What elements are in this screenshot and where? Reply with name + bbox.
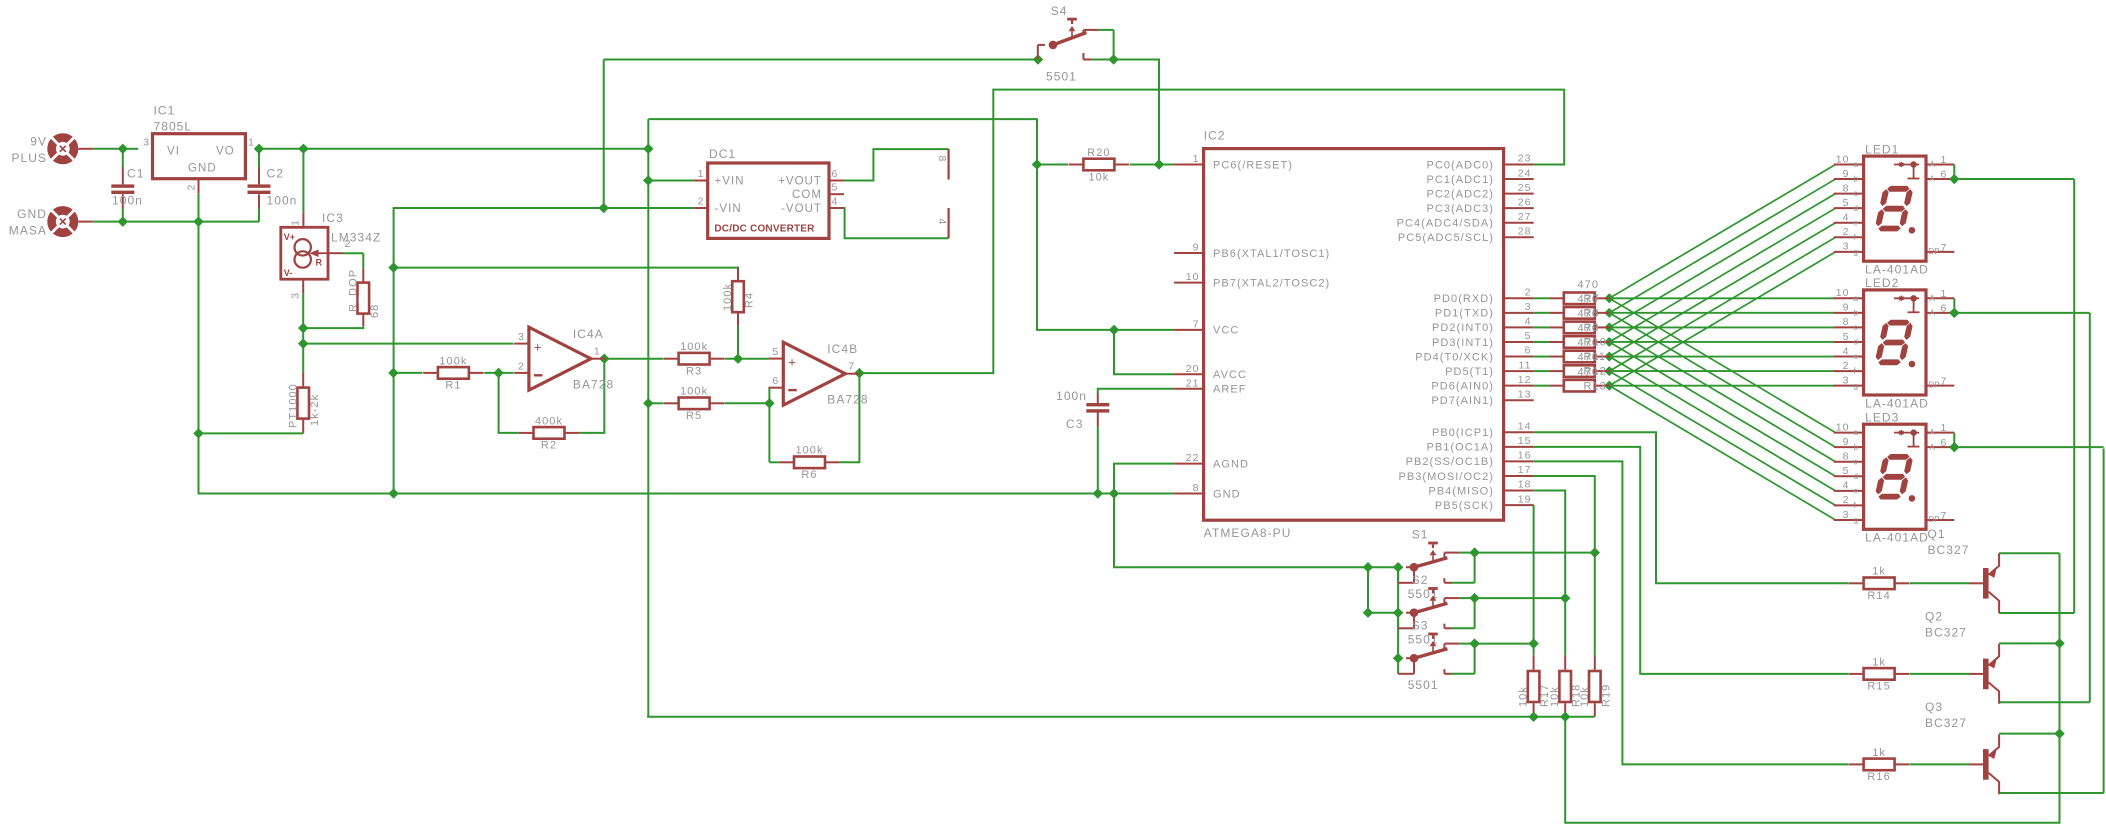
svg-text:LED2: LED2 [1865,276,1899,290]
svg-text:1: 1 [698,168,705,180]
svg-text:10k: 10k [1549,686,1561,707]
svg-text:6: 6 [1941,437,1948,449]
svg-text:2: 2 [345,238,352,250]
svg-text:e: e [1854,352,1859,361]
svg-text:PD7(AIN1): PD7(AIN1) [1431,395,1494,407]
svg-text:PD3(INT1): PD3(INT1) [1432,337,1494,349]
svg-text:21: 21 [1186,377,1200,389]
svg-text:PLUS: PLUS [11,151,47,165]
svg-text:R: R [316,258,323,268]
svg-text:BC327: BC327 [1928,543,1970,557]
svg-text:+VIN: +VIN [715,175,745,187]
svg-text:-VIN: -VIN [715,203,742,215]
svg-text:V-: V- [284,268,293,278]
svg-text:1: 1 [594,346,601,358]
svg-text:a: a [1854,428,1859,437]
svg-text:2: 2 [186,184,198,191]
svg-text:20: 20 [1186,363,1200,375]
svg-text:2: 2 [698,195,705,207]
svg-text:3: 3 [518,331,525,343]
svg-text:4: 4 [1843,212,1850,224]
svg-text:10: 10 [1836,153,1850,165]
svg-text:c: c [1854,457,1858,466]
svg-text:g: g [1854,381,1858,390]
svg-text:8: 8 [1843,451,1850,463]
svg-text:PC5(ADC5/SCL): PC5(ADC5/SCL) [1398,232,1494,244]
svg-text:e: e [1854,486,1859,495]
svg-text:1k: 1k [1872,656,1886,668]
svg-text:AVCC: AVCC [1213,369,1247,381]
svg-text:470: 470 [1578,308,1600,320]
svg-text:PB7(XTAL2/TOSC2): PB7(XTAL2/TOSC2) [1213,277,1330,289]
svg-text:100k: 100k [795,445,823,457]
svg-text:1: 1 [1941,288,1948,300]
svg-text:11: 11 [1519,359,1532,371]
svg-text:7: 7 [1941,510,1948,522]
svg-text:DC1: DC1 [709,147,736,161]
svg-text:PD0(RXD): PD0(RXD) [1434,293,1494,305]
svg-text:A: A [1930,443,1936,452]
svg-text:S3: S3 [1412,619,1429,633]
svg-text:VI: VI [167,145,180,157]
svg-text:10k: 10k [1088,171,1109,183]
svg-text:3: 3 [290,292,302,299]
svg-text:PB4(MISO): PB4(MISO) [1428,485,1494,497]
svg-text:IC1: IC1 [154,104,176,118]
svg-text:470: 470 [1578,279,1600,291]
svg-text:C3: C3 [1066,417,1083,431]
svg-text:PD6(AIN0): PD6(AIN0) [1431,380,1494,392]
svg-text:+VOUT: +VOUT [778,175,822,187]
svg-text:9: 9 [1193,242,1200,254]
svg-text:68: 68 [369,304,381,318]
svg-text:g: g [1854,247,1858,256]
svg-text:VCC: VCC [1213,325,1239,337]
svg-text:28: 28 [1518,226,1532,238]
svg-text:4: 4 [1525,316,1532,328]
svg-text:100k: 100k [439,355,467,367]
svg-text:A: A [1930,160,1936,169]
svg-text:BA728: BA728 [827,393,868,407]
svg-text:5: 5 [1843,331,1850,343]
svg-text:-VOUT: -VOUT [781,203,822,215]
svg-text:c: c [1854,189,1858,198]
svg-text:5: 5 [1525,330,1532,342]
svg-text:100n: 100n [112,194,143,208]
svg-text:24: 24 [1518,167,1532,179]
svg-text:d: d [1854,338,1858,347]
svg-text:6: 6 [772,375,779,387]
svg-text:14: 14 [1518,421,1532,433]
svg-text:V+: V+ [284,232,295,242]
svg-text:10k: 10k [1579,686,1591,707]
svg-text:2: 2 [518,360,525,372]
svg-text:4: 4 [1843,480,1850,492]
svg-text:LM334Z: LM334Z [331,231,381,245]
svg-text:LED1: LED1 [1865,142,1899,156]
svg-text:GND: GND [1213,488,1241,500]
svg-text:+: + [534,339,543,354]
svg-text:470: 470 [1578,293,1600,305]
svg-text:6: 6 [1941,169,1948,181]
svg-text:5: 5 [1843,197,1850,209]
svg-text:IC4A: IC4A [573,327,604,341]
svg-text:7: 7 [1193,319,1200,331]
svg-text:12: 12 [1518,374,1532,386]
svg-text:g: g [1854,516,1858,525]
svg-text:PC0(ADC0): PC0(ADC0) [1426,159,1494,171]
svg-text:100n: 100n [1056,389,1087,403]
svg-text:a: a [1854,160,1859,169]
svg-text:8: 8 [936,156,948,163]
svg-text:DP: DP [1929,247,1940,256]
svg-text:PC4(ADC4/SDA): PC4(ADC4/SDA) [1397,218,1494,230]
svg-text:10k: 10k [1518,686,1530,707]
svg-text:15: 15 [1518,435,1532,447]
svg-text:S1: S1 [1412,528,1429,542]
svg-text:4: 4 [1843,345,1850,357]
svg-text:8: 8 [1193,482,1200,494]
svg-text:5: 5 [832,182,839,194]
svg-text:PB5(SCK): PB5(SCK) [1435,500,1494,512]
svg-text:16: 16 [1518,450,1532,462]
svg-text:7: 7 [1941,242,1948,254]
svg-text:PC1(ADC1): PC1(ADC1) [1426,174,1494,186]
svg-text:400k: 400k [535,415,563,427]
svg-text:BC327: BC327 [1925,626,1967,640]
svg-text:1k: 1k [1872,566,1886,578]
svg-text:10: 10 [1836,421,1850,433]
svg-text:AREF: AREF [1213,384,1247,396]
svg-text:5: 5 [772,346,779,358]
svg-text:Q3: Q3 [1925,700,1943,714]
svg-text:R_DOP: R_DOP [348,269,360,312]
svg-text:10: 10 [1186,271,1200,283]
svg-text:S2: S2 [1412,573,1429,587]
svg-text:2: 2 [1843,226,1850,238]
svg-text:IC3: IC3 [322,211,344,225]
svg-text:A: A [1930,308,1936,317]
svg-text:9: 9 [1843,168,1850,180]
svg-text:7: 7 [1941,376,1948,388]
svg-text:Q1: Q1 [1928,527,1946,541]
svg-text:PB3(MOSI/OC2): PB3(MOSI/OC2) [1398,471,1494,483]
svg-text:2: 2 [1525,287,1532,299]
svg-text:e: e [1854,218,1859,227]
svg-text:LA-401AD: LA-401AD [1865,263,1929,277]
svg-text:470: 470 [1578,366,1600,378]
svg-text:b: b [1854,175,1859,184]
svg-text:A: A [1930,175,1936,184]
svg-text:R3: R3 [686,366,702,378]
svg-text:27: 27 [1518,211,1532,223]
svg-text:PB6(XTAL1/TOSC1): PB6(XTAL1/TOSC1) [1213,248,1330,260]
svg-text:S4: S4 [1051,4,1068,18]
svg-text:4: 4 [832,195,839,207]
svg-text:5501: 5501 [1408,678,1439,692]
svg-text:VO: VO [216,145,235,157]
svg-text:22: 22 [1186,452,1200,464]
svg-text:A: A [1930,428,1936,437]
svg-text:18: 18 [1518,479,1532,491]
svg-text:R19: R19 [1600,684,1612,707]
svg-text:470: 470 [1578,337,1600,349]
svg-text:PC6(/RESET): PC6(/RESET) [1213,159,1293,171]
svg-text:R15: R15 [1867,681,1890,693]
svg-text:R14: R14 [1867,590,1890,602]
svg-text:d: d [1854,204,1858,213]
svg-text:25: 25 [1518,182,1532,194]
svg-text:GND: GND [17,207,47,221]
svg-text:R20: R20 [1087,147,1110,159]
svg-text:1: 1 [290,219,302,226]
svg-text:5501: 5501 [1046,69,1077,83]
svg-text:COM: COM [792,189,822,201]
svg-text:1: 1 [248,137,255,149]
svg-text:C2: C2 [267,167,284,181]
svg-text:8: 8 [1843,182,1850,194]
svg-text:b: b [1854,443,1859,452]
svg-text:4: 4 [936,219,948,226]
svg-text:DP: DP [1929,381,1940,390]
svg-text:IC2: IC2 [1204,128,1226,142]
svg-text:23: 23 [1518,153,1532,165]
svg-text:PB0(ICP1): PB0(ICP1) [1432,427,1494,439]
svg-text:Q2: Q2 [1925,610,1943,624]
svg-text:GND: GND [188,163,217,175]
svg-text:PB1(OC1A): PB1(OC1A) [1426,442,1494,454]
svg-text:3: 3 [143,137,150,149]
svg-text:470: 470 [1578,352,1600,364]
svg-text:AGND: AGND [1213,458,1249,470]
svg-text:A: A [1930,294,1936,303]
svg-text:PT1000: PT1000 [288,383,300,428]
svg-text:17: 17 [1518,464,1532,476]
svg-text:R13: R13 [1584,380,1607,392]
svg-text:R1: R1 [445,380,461,392]
svg-text:100k: 100k [680,386,708,398]
svg-text:LA-401AD: LA-401AD [1865,396,1929,410]
svg-text:100k: 100k [722,283,734,311]
svg-text:1: 1 [1193,153,1200,165]
svg-text:R5: R5 [686,410,702,422]
svg-text:PC2(ADC2): PC2(ADC2) [1426,188,1494,200]
svg-text:9V: 9V [30,134,47,148]
svg-text:c: c [1854,323,1858,332]
svg-text:10: 10 [1836,287,1850,299]
svg-text:b: b [1854,308,1859,317]
svg-text:R2: R2 [541,440,557,452]
svg-text:R6: R6 [801,469,817,481]
svg-text:13: 13 [1518,388,1532,400]
svg-text:LA-401AD: LA-401AD [1865,531,1929,545]
svg-text:100n: 100n [267,194,298,208]
svg-text:6: 6 [1525,345,1532,357]
svg-text:3: 3 [1843,241,1850,253]
svg-text:1k-2k: 1k-2k [309,394,321,426]
svg-text:2: 2 [1843,494,1850,506]
svg-text:PD1(TXD): PD1(TXD) [1435,308,1494,320]
svg-text:19: 19 [1518,493,1532,505]
svg-text:BC327: BC327 [1925,716,1967,730]
svg-text:C1: C1 [127,167,144,181]
svg-text:5: 5 [1843,465,1850,477]
svg-text:d: d [1854,472,1858,481]
svg-text:PD5(T1): PD5(T1) [1445,366,1494,378]
svg-text:DP: DP [1929,515,1940,524]
svg-text:8: 8 [1843,316,1850,328]
svg-text:R4: R4 [744,292,756,308]
svg-text:LED3: LED3 [1865,410,1899,424]
svg-text:1k: 1k [1872,747,1886,759]
svg-text:2: 2 [1843,360,1850,372]
svg-text:a: a [1854,294,1859,303]
svg-text:1: 1 [1941,422,1948,434]
svg-text:BA728: BA728 [573,378,614,392]
svg-text:R16: R16 [1867,771,1890,783]
svg-text:1: 1 [1941,154,1948,166]
svg-text:470: 470 [1578,323,1600,335]
svg-text:7805L: 7805L [154,120,193,134]
svg-text:100k: 100k [680,341,708,353]
svg-text:3: 3 [1525,301,1532,313]
svg-text:MASA: MASA [9,224,47,238]
svg-text:9: 9 [1843,436,1850,448]
svg-text:3: 3 [1843,509,1850,521]
svg-text:PD4(T0/XCK): PD4(T0/XCK) [1415,351,1494,363]
svg-text:DC/DC CONVERTER: DC/DC CONVERTER [714,223,815,234]
svg-text:26: 26 [1518,196,1532,208]
svg-text:6: 6 [1941,302,1948,314]
svg-text:PB2(SS/OC1B): PB2(SS/OC1B) [1406,456,1494,468]
svg-text:+: + [788,354,797,369]
svg-text:6: 6 [832,168,839,180]
svg-text:PC3(ADC3): PC3(ADC3) [1426,203,1494,215]
svg-text:9: 9 [1843,302,1850,314]
svg-text:ATMEGA8-PU: ATMEGA8-PU [1204,526,1292,540]
svg-text:7: 7 [848,361,855,373]
svg-text:IC4B: IC4B [827,342,858,356]
svg-text:3: 3 [1843,374,1850,386]
svg-text:PD2(INT0): PD2(INT0) [1432,322,1494,334]
